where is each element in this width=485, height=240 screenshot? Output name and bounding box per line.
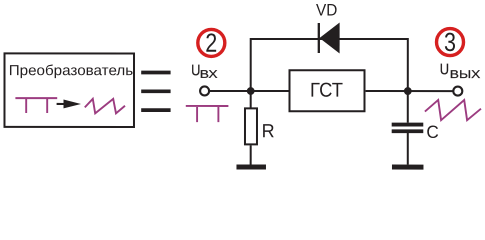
triple-bar connection symbol (141, 71, 170, 112)
diode VD (319, 23, 340, 54)
wire resistor to ground (250, 145, 252, 164)
square-wave symbol inside converter (15, 98, 57, 113)
op-amp box GST (current source) (289, 70, 364, 111)
resistor R (245, 108, 257, 144)
wire capacitor to ground (407, 133, 409, 165)
svg-text:VD: VD (316, 1, 337, 20)
wire node B to capacitor (407, 91, 409, 123)
wire diode branch (251, 39, 408, 91)
output terminal (453, 87, 462, 96)
svg-text:R: R (262, 121, 275, 142)
svg-text:ГСТ: ГСТ (310, 80, 343, 102)
capacitor C (392, 123, 424, 134)
wire GST to output (366, 90, 454, 92)
converter block box (4, 53, 134, 127)
wire node A to resistor (250, 91, 252, 109)
input square-wave symbol (186, 106, 229, 122)
ground left (236, 164, 266, 169)
callout circle 2 (198, 28, 225, 58)
node label Uвх (191, 62, 218, 81)
node A junction (247, 87, 255, 95)
node label Uвых (440, 61, 481, 81)
ground right (392, 165, 424, 170)
sawtooth symbol inside converter (85, 99, 125, 114)
svg-text:ВХ: ВХ (200, 69, 218, 81)
callout circle 3 (437, 27, 464, 57)
input terminal (200, 86, 209, 95)
svg-text:U: U (440, 61, 449, 78)
output sawtooth symbol (425, 100, 481, 120)
svg-text:C: C (426, 122, 439, 142)
wire input to GST (209, 90, 289, 92)
svg-text:Преобразователь: Преобразователь (9, 63, 134, 79)
svg-text:3: 3 (444, 27, 456, 57)
svg-text:ВЫХ: ВЫХ (450, 69, 481, 81)
svg-text:2: 2 (205, 28, 217, 58)
node B junction (404, 87, 412, 95)
arrow (57, 100, 81, 109)
